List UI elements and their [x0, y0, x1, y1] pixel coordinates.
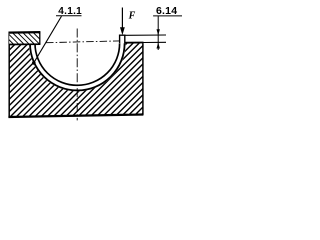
block top surface right: [124, 42, 143, 44]
svg-text:F: F: [128, 10, 136, 21]
shell raised right end tab: [120, 35, 125, 43]
housing block hatched body: [0, 37, 320, 197]
dim arrow down at upper line: [157, 29, 160, 35]
dim 6.14 lower extension line: [143, 41, 166, 43]
block bottom edge: [8, 115, 143, 118]
clamp right edge: [39, 32, 41, 44]
shell inner arc: [35, 43, 120, 85]
dim 6.14 vertical line: [157, 16, 159, 50]
svg-text:4.1.1: 4.1.1: [58, 6, 82, 17]
vertical centerline: [76, 29, 78, 121]
block right edge: [142, 43, 144, 115]
block left edge: [8, 32, 10, 118]
label 6.14 underline: [153, 15, 182, 17]
dim 6.14 upper extension line: [125, 34, 166, 36]
svg-text:6.14: 6.14: [156, 5, 177, 17]
clamp plate hatched: [9, 32, 40, 44]
leader dot on shell: [32, 61, 36, 65]
clamp bottom / surface left: [9, 43, 40, 45]
clamp top edge: [9, 31, 41, 34]
dim arrow up at lower line: [157, 43, 160, 49]
force arrow F stem: [121, 8, 123, 31]
leader 4.1.1 line: [34, 16, 62, 63]
cavity / shell outer arc: [30, 43, 125, 90]
force arrowhead: [120, 27, 125, 35]
leader 4.1.1 shoulder: [56, 15, 82, 17]
horizontal centerline: [46, 41, 120, 43]
